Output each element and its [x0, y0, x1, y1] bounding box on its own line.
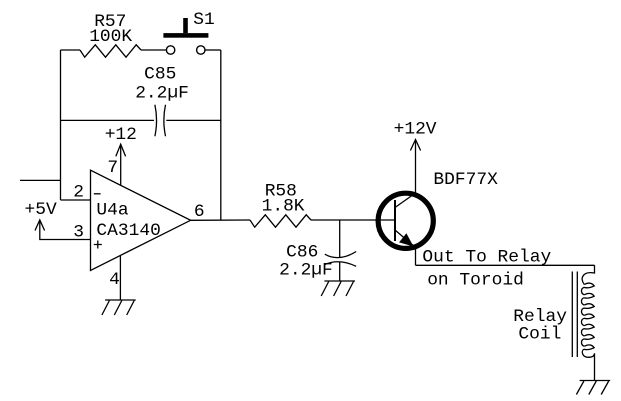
- wire: op-amp output pin 6 to R58: [191, 219, 250, 221]
- wire: S1 right contact to right vertical: [205, 49, 221, 51]
- wire: into op-amp pin 2: [61, 199, 91, 201]
- ground (op-amp pin 4): [102, 300, 136, 315]
- wire: input stub to pin 2 node: [20, 179, 61, 181]
- svg-text:+5V: +5V: [25, 200, 57, 220]
- op-amp U4a triangle: [91, 170, 191, 270]
- transistor Q1 circle (BDF77X): [378, 193, 433, 248]
- svg-text:on Toroid: on Toroid: [427, 271, 524, 291]
- wire: feedback right vertical: [220, 50, 222, 220]
- resistor R58: [250, 215, 311, 227]
- transistor collector diagonal: [395, 193, 416, 208]
- capacitor C86: [325, 252, 356, 267]
- wire: pin 4 to ground: [119, 255, 121, 300]
- svg-text:2: 2: [73, 183, 84, 203]
- svg-text:U4a: U4a: [96, 200, 128, 220]
- svg-text:CA3140: CA3140: [96, 221, 160, 241]
- svg-text:Out To Relay: Out To Relay: [422, 248, 551, 268]
- svg-text:BDF77X: BDF77X: [433, 170, 498, 190]
- wire: emitter horizontal to relay coil: [416, 264, 595, 266]
- svg-text:C86: C86: [286, 243, 318, 263]
- svg-text:Coil: Coil: [518, 324, 561, 344]
- svg-text:7: 7: [107, 158, 118, 178]
- wire: C85 branch right: [166, 119, 221, 121]
- ground (relay coil): [576, 381, 610, 395]
- svg-text:2.2µF: 2.2µF: [135, 84, 189, 104]
- resistor R57: [80, 45, 141, 57]
- svg-text:+12V: +12V: [394, 120, 437, 140]
- switch S1: [163, 18, 208, 54]
- power +5V arrow: [35, 220, 91, 240]
- wire: C86 to ground: [339, 262, 341, 281]
- inductor core lines: [572, 272, 577, 358]
- power +12V arrow (collector): [410, 140, 420, 151]
- wire: R57 to S1 left contact: [141, 49, 166, 51]
- transistor base bar: [394, 200, 396, 241]
- op-amp plus sign: [94, 241, 102, 249]
- svg-text:1.8K: 1.8K: [262, 196, 305, 216]
- svg-text:S1: S1: [193, 10, 214, 30]
- wire: C86 branch down: [339, 220, 341, 257]
- svg-text:C85: C85: [144, 65, 176, 85]
- power +12 arrow (pin 7): [116, 144, 126, 185]
- svg-text:2.2µF: 2.2µF: [279, 261, 333, 281]
- ground (C86): [321, 281, 355, 296]
- transistor emitter arrowhead: [400, 234, 413, 246]
- svg-text:6: 6: [194, 202, 205, 222]
- svg-text:100K: 100K: [89, 27, 132, 47]
- inductor L1 relay coil winding: [581, 265, 594, 380]
- transistor emitter diagonal: [395, 230, 416, 248]
- svg-text:4: 4: [109, 270, 120, 290]
- wire: collector up: [415, 140, 417, 195]
- wire: top feedback, left segment to R57: [61, 49, 81, 51]
- capacitor C85: [155, 105, 166, 136]
- wire: feedback left vertical (node pin2): [60, 50, 62, 200]
- svg-text:+12: +12: [105, 125, 137, 145]
- svg-text:3: 3: [73, 222, 84, 242]
- wire: emitter down: [415, 246, 417, 265]
- wire: R58 to transistor base: [311, 219, 395, 221]
- op-amp minus sign: [94, 193, 101, 195]
- wire: C85 branch left: [61, 119, 155, 121]
